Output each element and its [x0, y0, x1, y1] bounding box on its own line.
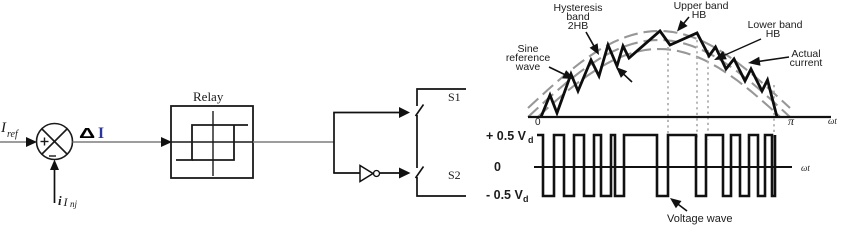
voltage square wave	[537, 135, 775, 196]
svg-text:S1: S1	[448, 90, 461, 104]
svg-text:HB: HB	[692, 9, 707, 21]
svg-text:I: I	[98, 125, 104, 142]
arrow sine reference to curve	[549, 67, 574, 79]
svg-text:ωt: ωt	[801, 163, 810, 173]
wire S1 to S2	[416, 115, 418, 168]
svg-text:Δ: Δ	[79, 125, 95, 141]
svg-text:ref: ref	[7, 129, 19, 140]
svg-text:Relay: Relay	[193, 89, 224, 104]
omega-t axis (top chart)	[528, 116, 831, 118]
label +0.5 Vd	[486, 129, 534, 145]
switch S2 blade	[416, 167, 424, 179]
relay vertical axis	[212, 111, 214, 176]
wire branch to switch S1 gate	[333, 107, 410, 118]
wire inverter to switch S2 gate	[380, 168, 411, 179]
wire branch to inverter	[333, 172, 360, 174]
svg-text:wave: wave	[515, 61, 541, 73]
inverter (NOT gate)	[360, 166, 380, 182]
relay block U1	[171, 106, 253, 178]
label Lower band HB	[748, 19, 803, 40]
svg-text:2HB: 2HB	[568, 20, 588, 32]
zero axis (bottom chart)	[534, 166, 792, 168]
upper band HB dashed curve	[528, 31, 790, 108]
svg-text:Voltage wave: Voltage wave	[667, 213, 732, 225]
arrow to lower band (inner)	[616, 67, 632, 82]
dotted guide line at x=774	[773, 85, 775, 140]
summing junction	[37, 124, 73, 160]
svg-text:0: 0	[494, 160, 501, 174]
wire top rail to S1	[417, 89, 466, 106]
svg-text:ωt: ωt	[828, 116, 837, 126]
arrow actual current to zigzag	[748, 57, 789, 66]
dotted guide line at x=697	[696, 40, 698, 140]
wire relay output to branch node	[253, 141, 334, 143]
svg-text:current: current	[790, 57, 823, 69]
svg-text:nj: nj	[70, 199, 78, 209]
label i_Inj	[58, 193, 78, 209]
branch node vertical wire	[333, 113, 335, 174]
lower band HB dashed curve	[538, 49, 780, 117]
dotted guide line at x=668	[667, 47, 669, 140]
svg-text:+ 0.5 V: + 0.5 V	[486, 129, 527, 143]
arrow hysteresis band to upper band curve	[586, 32, 599, 55]
svg-text:π: π	[788, 114, 795, 128]
relay horizontal axis	[171, 141, 253, 143]
wire injected current into summing junction	[50, 160, 59, 204]
relay hysteresis loop	[176, 125, 248, 160]
wire S2 to bottom rail	[417, 177, 466, 196]
switch S1 blade	[416, 105, 424, 117]
arrow lower band to curve	[714, 39, 761, 60]
label -0.5 Vd	[486, 188, 529, 204]
svg-text:I: I	[63, 195, 69, 209]
svg-text:0: 0	[535, 117, 541, 128]
wire summing junction to relay	[73, 137, 173, 147]
actual current zigzag	[541, 31, 777, 117]
label Hysteresis band 2HB	[553, 2, 602, 32]
dotted guide line at x=708	[707, 50, 709, 140]
svg-text:d: d	[523, 194, 529, 204]
svg-text:i: i	[58, 193, 62, 208]
label I_ref	[0, 120, 19, 140]
svg-text:d: d	[528, 135, 534, 145]
sine reference dashed curve	[528, 40, 790, 117]
svg-text:I: I	[0, 120, 7, 136]
label delta-I (error signal)	[79, 125, 104, 142]
svg-text:- 0.5 V: - 0.5 V	[486, 188, 523, 202]
label Sine reference wave	[506, 43, 551, 73]
plus sign	[41, 138, 49, 146]
label Actual current	[790, 48, 823, 69]
arrow upper band to curve	[677, 17, 689, 32]
wire input I_ref	[0, 137, 37, 147]
label Upper band HB	[674, 0, 729, 21]
minus sign	[49, 155, 56, 157]
arrow voltage wave to pulse	[670, 198, 687, 211]
svg-text:S2: S2	[448, 168, 461, 182]
svg-text:HB: HB	[766, 28, 781, 40]
